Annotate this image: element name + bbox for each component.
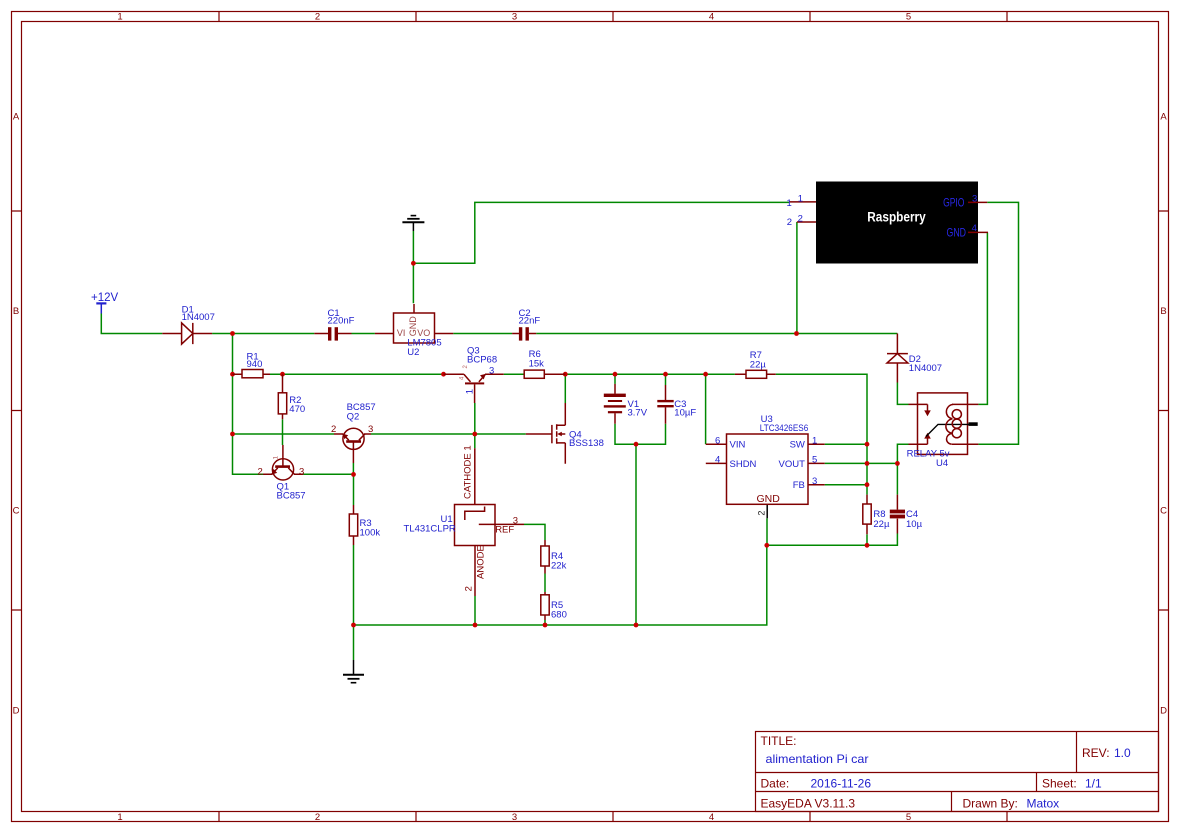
junction (615,374.2) (613, 372, 618, 377)
junction (897.4,463.4) (895, 461, 900, 466)
svg-text:22µ: 22µ (750, 360, 767, 371)
svg-text:10µF: 10µF (674, 408, 696, 419)
transistor Q1 BC857 (PNP) (258, 445, 306, 502)
svg-text:2: 2 (315, 12, 320, 23)
svg-text:2: 2 (258, 466, 263, 477)
junction (545,625) (543, 623, 548, 628)
svg-text:Matox: Matox (1027, 797, 1060, 811)
svg-text:B: B (13, 306, 19, 317)
wire V1 bottom to C3 bottom (615, 424, 666, 445)
svg-text:FB: FB (793, 480, 805, 491)
junction (665.5,374.2) (663, 372, 668, 377)
wire rail junction down to U3 VIN (705, 374, 707, 444)
svg-text:100k: 100k (360, 527, 381, 538)
shunt reference U1 TL431CLPR (404, 445, 525, 596)
battery V1 3.7V (604, 384, 648, 424)
wire rail junction down to R1 and Q1 (233, 334, 264, 475)
wire U2 VO to C2 (453, 333, 512, 335)
svg-text:22nF: 22nF (519, 316, 541, 327)
wire Q3 collector to R6 (504, 373, 525, 375)
wire R2 bottom to Q1 base (282, 419, 284, 445)
svg-text:BCP68: BCP68 (467, 355, 497, 366)
wire Raspberry pin2 down to main rail (796, 222, 798, 334)
wire R7 right, down to SW/VOUT/FB column and R8 (776, 374, 867, 494)
wire R6 to R7 (through V1 C3 U3-VIN junctions) (565, 373, 735, 375)
junction (867,484.7) (865, 482, 870, 487)
ground (bottom, near R3) (343, 660, 364, 683)
wire U1 REF to R4 (524, 524, 545, 540)
svg-text:3: 3 (299, 466, 304, 477)
svg-text:15k: 15k (529, 359, 545, 370)
capacitor C3 10uF (657, 385, 696, 424)
resistor R8 22u (863, 495, 890, 535)
svg-text:2016-11-26: 2016-11-26 (811, 777, 872, 791)
junction (232.5,333.5) (230, 331, 235, 336)
wire U3 FB to right column (825, 484, 867, 486)
wire Q4 drain up to junction (564, 374, 566, 403)
resistor R1 940 (233, 351, 271, 378)
transistor Q3 BCP68 (NPN) (444, 345, 504, 403)
svg-text:ANODE: ANODE (476, 545, 487, 579)
svg-text:A: A (13, 112, 20, 123)
svg-text:2: 2 (464, 586, 475, 591)
junction (232.5,374.2) (230, 372, 235, 377)
junction (475,625) (473, 623, 478, 628)
svg-text:3: 3 (489, 365, 494, 376)
svg-text:3: 3 (512, 812, 517, 823)
svg-text:1: 1 (787, 198, 792, 209)
wire Q2 emitter down to junction (352, 463, 354, 474)
svg-text:VOUT: VOUT (779, 459, 806, 470)
svg-text:4: 4 (709, 812, 714, 823)
svg-text:EasyEDA V3.11.3: EasyEDA V3.11.3 (761, 797, 856, 811)
diode D2 1N4007 (887, 334, 942, 383)
wire relay switch bottom pin to VOUT junction (897, 444, 908, 463)
svg-text:Raspberry: Raspberry (867, 209, 926, 224)
svg-text:4: 4 (709, 12, 714, 23)
junction (867,463.4) (865, 461, 870, 466)
junction (766.8,545.3) (764, 543, 769, 548)
wire bottom rail (354, 545, 767, 625)
svg-text:2: 2 (798, 213, 803, 224)
wire Q2 base wire (233, 433, 335, 435)
wire R8 bottom to GND rail (866, 534, 868, 545)
svg-text:2: 2 (787, 217, 792, 228)
diode D1 1N4007 (162, 304, 215, 344)
svg-text:1: 1 (117, 12, 122, 23)
svg-text:Date:: Date: (761, 777, 790, 791)
wire Raspberry GND pin to relay coil top (978, 233, 987, 405)
junction (867,444.2) (865, 442, 870, 447)
module Raspberry (787, 182, 989, 264)
junction (867,545.3) (865, 543, 870, 548)
svg-text:REF: REF (495, 525, 514, 536)
svg-text:680: 680 (551, 610, 567, 621)
svg-text:D: D (13, 706, 20, 717)
wire Q3 emitter down to cathode junction (474, 403, 476, 448)
svg-text:5: 5 (906, 12, 911, 23)
wire R5 bottom to rail (544, 620, 546, 625)
svg-text:1N4007: 1N4007 (909, 363, 942, 374)
junction (565.3,374.2) (563, 372, 568, 377)
svg-text:3: 3 (512, 12, 517, 23)
svg-text:CATHODE 1: CATHODE 1 (463, 445, 474, 499)
svg-text:6: 6 (715, 435, 720, 446)
wire Q2/Q1 collector junction down to R3 (353, 474, 355, 505)
svg-text:C: C (1160, 506, 1167, 517)
regulator U2 LM7805 (375, 304, 453, 358)
svg-text:Sheet:: Sheet: (1042, 777, 1077, 791)
wire C4 top to VOUT junction (896, 463, 898, 494)
svg-text:22µ: 22µ (873, 519, 890, 530)
wire D2 bottom to relay switch top pin (897, 383, 908, 405)
svg-text:1N4007: 1N4007 (182, 312, 215, 323)
svg-text:SW: SW (790, 440, 805, 451)
boost converter U3 LTC3426ES6 (706, 414, 825, 519)
resistor R7 22u (735, 350, 776, 378)
svg-text:1: 1 (117, 812, 122, 823)
svg-text:C: C (13, 506, 20, 517)
svg-text:alimentation Pi car: alimentation Pi car (766, 752, 869, 766)
svg-text:940: 940 (247, 359, 263, 370)
junction (474.8,434) (472, 432, 477, 437)
transistor Q2 BC857 (PNP) (331, 402, 376, 463)
wire D1 cathode to junction and C1 (212, 333, 314, 335)
wire Raspberry GPIO to relay coil bottom (978, 202, 1018, 444)
wire U1 anode to rail (474, 596, 476, 625)
wire Q2 right to cathode junction to Q4 gate (371, 433, 526, 435)
resistor R3 100k (349, 505, 380, 545)
junction (636,444.2) (634, 442, 639, 447)
mosfet Q4 BSS138 (526, 403, 604, 464)
junction (353.5,474.4) (351, 472, 356, 477)
svg-text:1: 1 (273, 456, 280, 460)
svg-text:1: 1 (464, 389, 475, 394)
wire R4 to R5 (544, 574, 546, 593)
svg-text:10µ: 10µ (906, 519, 923, 530)
capacitor C1 220nF (314, 308, 354, 341)
wire mid GND rail with C4 branch (767, 534, 898, 546)
svg-text:4: 4 (715, 454, 720, 465)
svg-text:BSS138: BSS138 (569, 438, 604, 449)
svg-text:B: B (1160, 306, 1166, 317)
resistor R2 470 (278, 374, 305, 419)
title block (756, 732, 1159, 812)
svg-text:TITLE:: TITLE: (761, 734, 797, 748)
svg-text:4: 4 (972, 223, 977, 234)
svg-text:Q2: Q2 (347, 411, 360, 422)
svg-text:U2: U2 (407, 347, 419, 358)
svg-text:2: 2 (331, 424, 336, 435)
junction (705.6,374.2) (703, 372, 708, 377)
svg-text:GPIO: GPIO (943, 195, 964, 209)
wire top ground net to U2 GND and Raspberry pin1 (413, 202, 789, 303)
svg-text:3: 3 (368, 424, 373, 435)
wire U3 SW to right column (825, 443, 867, 445)
junction (796.5,333.5) (794, 331, 799, 336)
wire R3 bottom to rail and ground (353, 545, 355, 660)
svg-text:5: 5 (812, 454, 817, 465)
wire V1/C3 bottom to bottom rail (635, 444, 637, 625)
svg-text:LTC3426ES6: LTC3426ES6 (760, 423, 809, 434)
resistor R6 15k (524, 349, 565, 378)
ground (top, near U2) (402, 216, 424, 231)
svg-text:470: 470 (289, 404, 305, 415)
wire C1 to U2 VI (352, 333, 375, 335)
svg-text:VO: VO (417, 328, 430, 338)
junction (636,625) (634, 623, 639, 628)
capacitor C4 10u (890, 495, 923, 534)
svg-text:D: D (1160, 706, 1167, 717)
junction (232.5,434) (230, 432, 235, 437)
svg-text:1: 1 (812, 435, 817, 446)
wire C3 top (665, 374, 667, 385)
svg-text:2: 2 (757, 511, 767, 516)
svg-text:SHDN: SHDN (730, 459, 757, 470)
junction (282.5,374.2) (280, 372, 285, 377)
svg-text:REV:: REV: (1082, 746, 1110, 760)
svg-text:22k: 22k (551, 561, 567, 572)
wire C2 to D2 top (main rail) (536, 333, 897, 335)
resistor R5 680 (541, 592, 567, 621)
svg-text:TL431CLPR: TL431CLPR (404, 524, 456, 535)
svg-text:1/1: 1/1 (1085, 777, 1102, 791)
svg-text:BC857: BC857 (277, 491, 306, 502)
svg-text:3.7V: 3.7V (628, 408, 648, 419)
svg-text:Drawn By:: Drawn By: (963, 797, 1018, 811)
capacitor C2 22nF (512, 308, 540, 341)
junction (353.5,625) (351, 623, 356, 628)
junction (413.4,263.3) (411, 261, 416, 266)
svg-text:+12V: +12V (91, 292, 119, 304)
svg-text:1: 1 (798, 193, 803, 204)
resistor R4 22k (541, 540, 567, 574)
svg-text:A: A (1160, 112, 1167, 123)
svg-text:GND: GND (408, 316, 418, 337)
wire V1 top (614, 374, 616, 384)
wire U3 VOUT to relay contact column (825, 462, 898, 464)
wire Q1 collector to junction (303, 473, 353, 475)
relay U4 RELAY 5v (907, 393, 979, 469)
svg-text:GND: GND (947, 225, 967, 239)
svg-text:1.0: 1.0 (1114, 746, 1131, 760)
svg-text:2: 2 (315, 812, 320, 823)
svg-text:GND: GND (757, 493, 781, 505)
wire U3 GND pin down and left along bottom rail (766, 518, 768, 545)
svg-text:220nF: 220nF (328, 316, 355, 327)
wire R1 right to Q3 base junction (270, 373, 444, 375)
power flag +12V (91, 292, 119, 314)
junction (443.5,374.2) (441, 372, 446, 377)
svg-text:U4: U4 (936, 458, 948, 469)
svg-text:3: 3 (812, 476, 817, 487)
svg-text:VI: VI (397, 328, 406, 338)
junction dots (230, 261, 900, 627)
wire +12V to D1 anode (101, 314, 162, 334)
svg-text:VIN: VIN (730, 440, 746, 451)
svg-text:3: 3 (972, 193, 977, 204)
svg-text:5: 5 (906, 812, 911, 823)
